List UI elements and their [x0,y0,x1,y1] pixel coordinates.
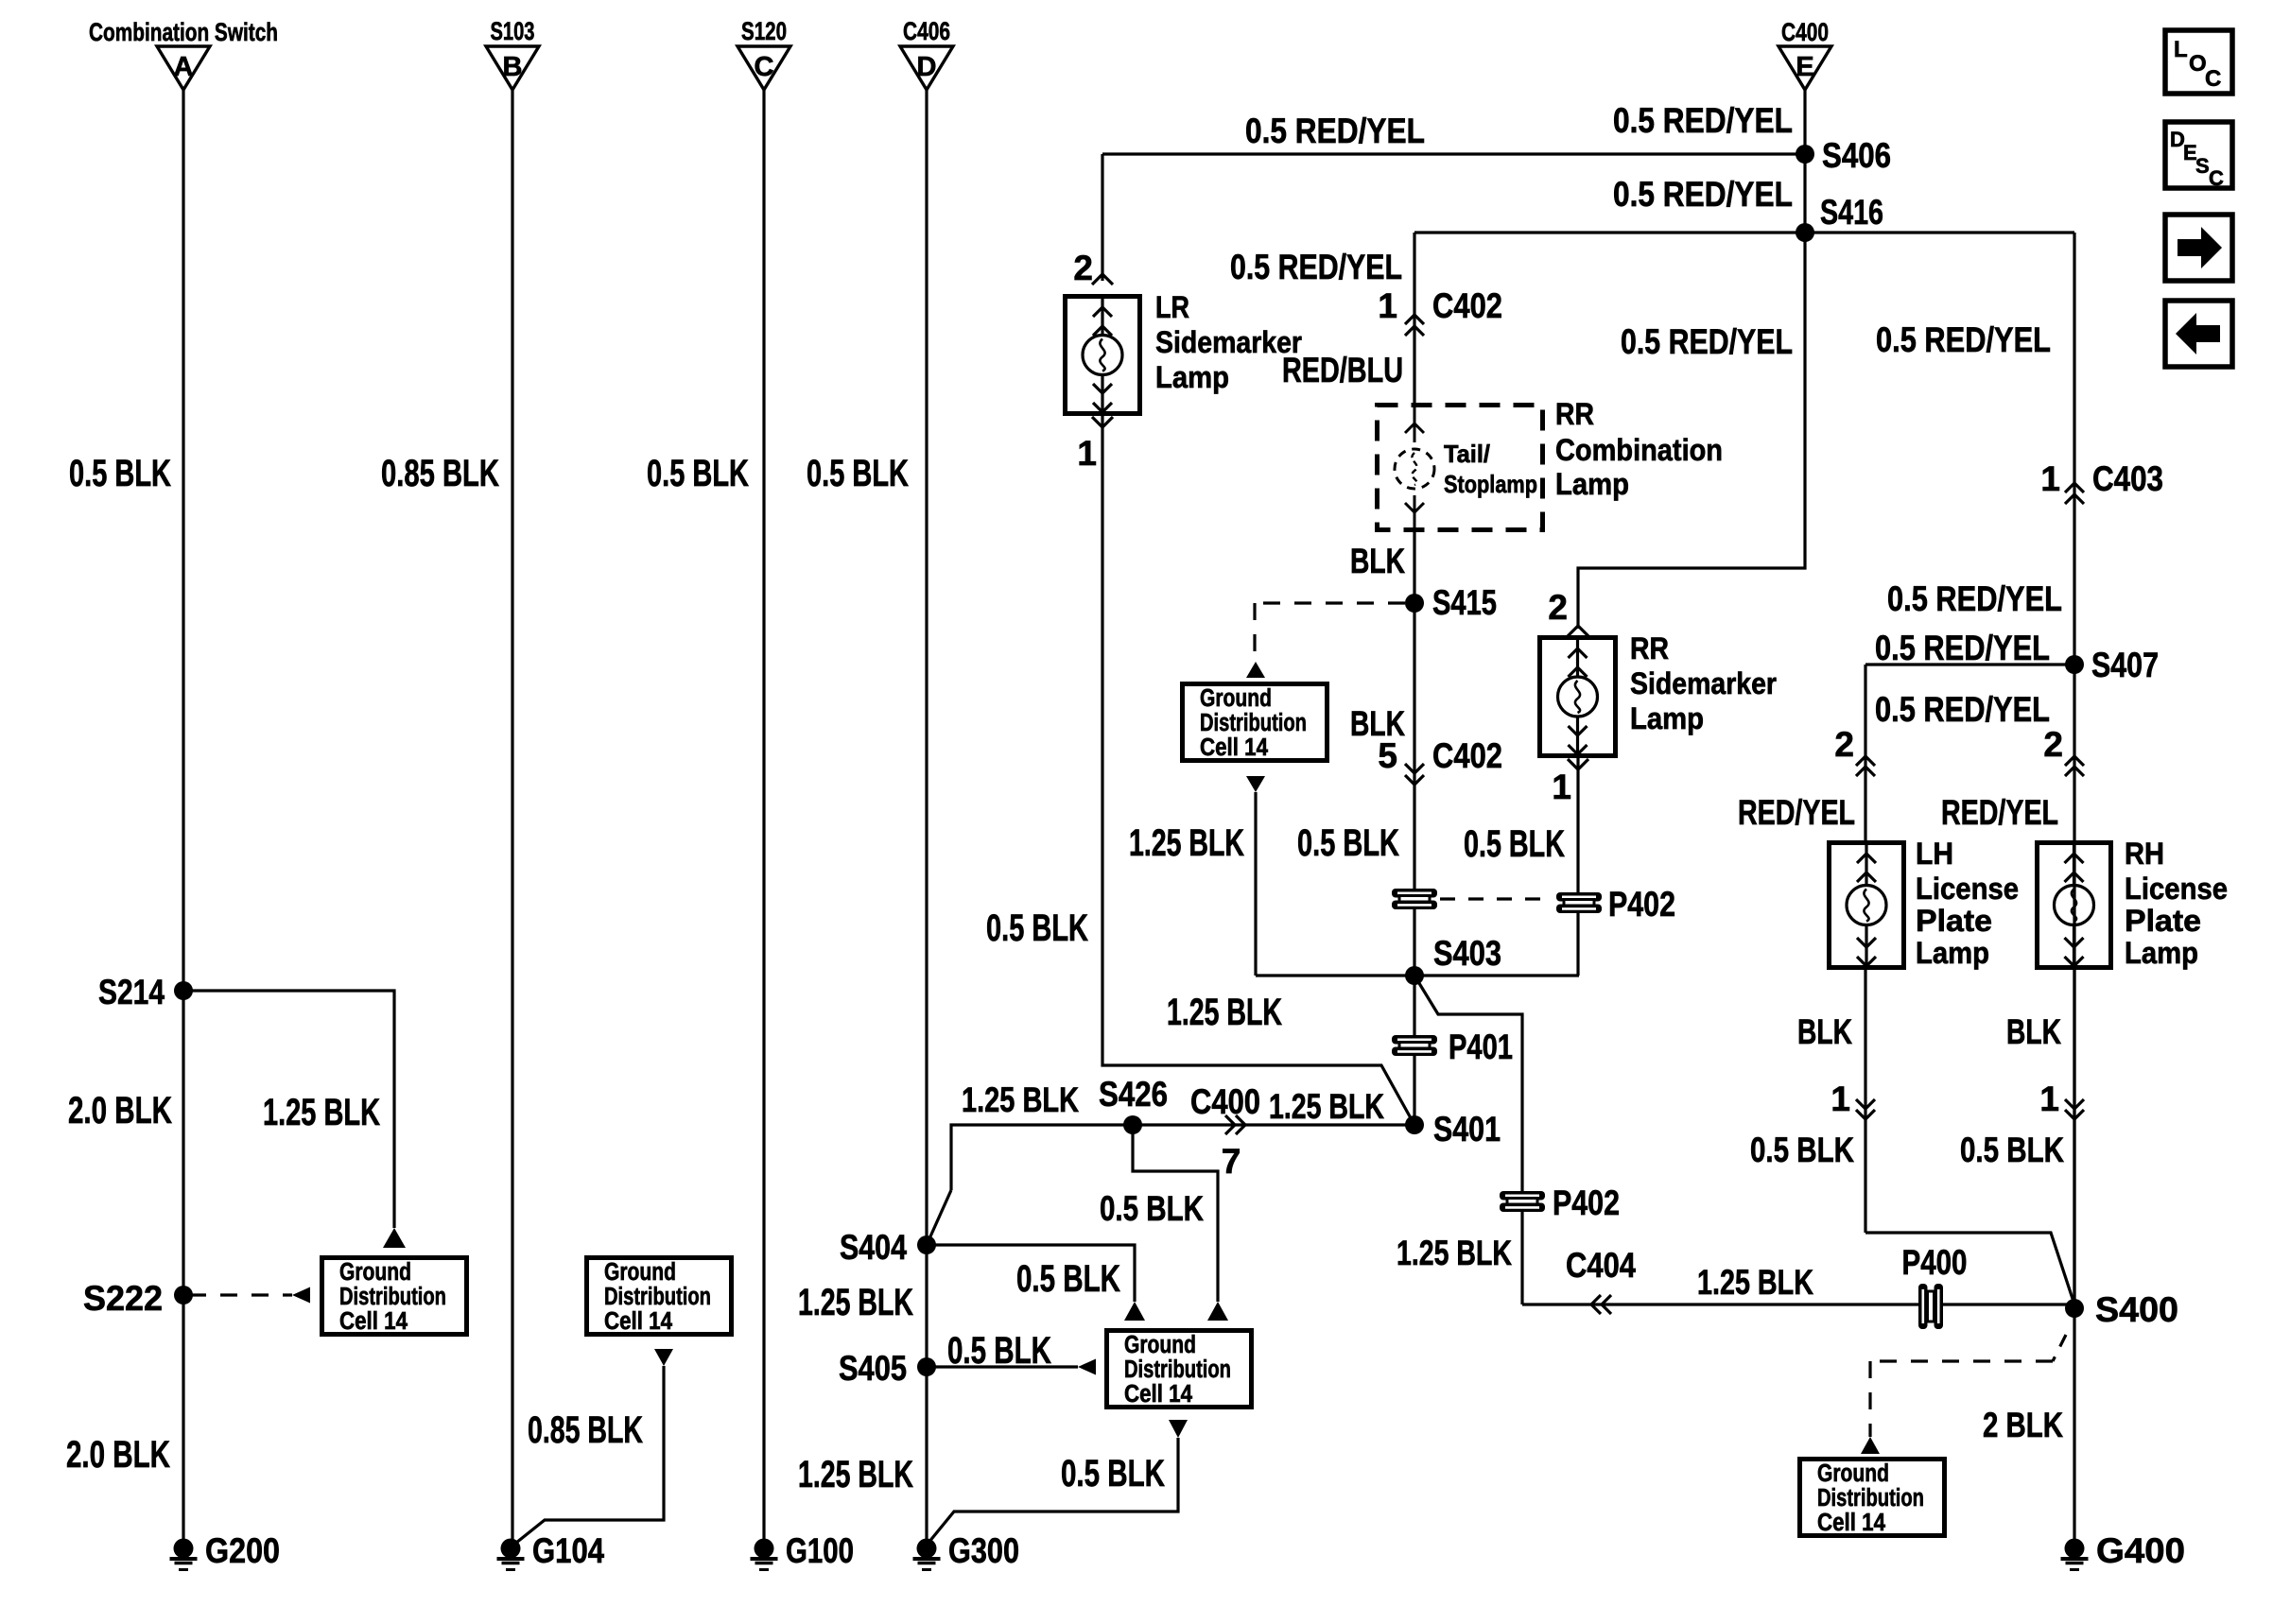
svg-text:0.5 BLK: 0.5 BLK [647,453,749,494]
svg-text:RED/BLU: RED/BLU [1282,351,1403,389]
splice P402 (right) [1556,892,1602,902]
svg-text:License: License [1916,872,2019,906]
ground G300 [917,1539,937,1559]
splice P401 [1392,1035,1437,1045]
connector C402 pin 5 [1405,764,1424,773]
svg-text:2 BLK: 2 BLK [1983,1406,2063,1444]
connector C400 pin 7 (in-line) [1225,1115,1235,1134]
connector C404 (in-line) [1591,1295,1601,1314]
wire 1.25 BLK S403 to C404 [1414,976,1522,1304]
connector triangle E (C400) [1778,46,1831,90]
svg-text:C: C [2205,66,2221,92]
svg-text:1.25 BLK: 1.25 BLK [1269,1087,1384,1126]
svg-text:G200: G200 [205,1531,280,1570]
wire S426 to ground distribution 0.5 BLK [1133,1125,1218,1302]
svg-text:RED/YEL: RED/YEL [1738,793,1855,832]
lamp RH License Plate Lamp [2038,843,2111,968]
wire BLK tail/stoplamp to S403 [1413,532,1415,976]
svg-text:Lamp: Lamp [1155,360,1229,394]
svg-text:S403: S403 [1433,934,1501,973]
arrow from ground distribution box (middle) [1169,1420,1188,1438]
wire S403 horizontal [1256,974,1579,976]
svg-text:RED/YEL: RED/YEL [1941,793,2058,832]
wire 1.25 BLK S403 to S401 [1413,976,1415,1125]
svg-text:S400: S400 [2095,1290,2178,1329]
arrow from ground distribution box (upper) [1246,776,1265,792]
svg-text:0.5 BLK: 0.5 BLK [1100,1189,1204,1228]
svg-text:2: 2 [2043,725,2063,764]
svg-text:S407: S407 [2091,646,2159,684]
legend box arrow right [2165,215,2232,281]
svg-text:Plate: Plate [2125,904,2201,938]
svg-text:S426: S426 [1099,1075,1168,1114]
svg-text:2: 2 [1834,725,1854,764]
svg-text:Cell 14: Cell 14 [1200,734,1269,761]
wire S214 to ground distribution 1.25 BLK [183,991,394,1228]
svg-text:Tail/: Tail/ [1444,440,1490,468]
ground G100 [755,1539,774,1559]
svg-text:2.0 BLK: 2.0 BLK [66,1434,170,1476]
svg-text:S405: S405 [839,1349,907,1388]
wire S405 to ground distribution 0.5 BLK [927,1365,1078,1368]
wire E vertical [1803,90,1806,154]
svg-text:BLK: BLK [1797,1012,1852,1051]
svg-text:Lamp: Lamp [1555,467,1629,501]
lamp RR Combination Lamp (Tail/Stoplamp dashed box) [1378,406,1543,530]
wire 1.25 BLK C404 to S400 [1522,1303,2074,1305]
svg-text:0.5 BLK: 0.5 BLK [807,453,909,494]
svg-text:L: L [2174,37,2188,62]
wire RED/YEL to LH license pin 2 [1864,665,1866,840]
splice P402 (left) [1392,889,1437,898]
arrow at ground distribution box (S222) [292,1287,310,1304]
wire 0.5 RED/YEL S406 to S416 [1803,154,1806,233]
svg-text:P401: P401 [1449,1028,1513,1066]
svg-text:A: A [174,52,194,82]
wire 0.5 BLK LR sidemarker ground to S401 [1102,416,1414,1125]
svg-text:G400: G400 [2096,1531,2185,1570]
svg-text:0.5 RED/YEL: 0.5 RED/YEL [1621,322,1793,361]
wire S416 horizontal [1414,231,2074,233]
wire A vertical [182,90,184,1541]
svg-text:Stoplamp: Stoplamp [1444,470,1537,498]
wire inside tail/stoplamp bottom [1414,495,1416,532]
svg-text:Distribution: Distribution [339,1284,446,1310]
svg-text:BLK: BLK [2006,1012,2061,1051]
svg-text:P402: P402 [1608,885,1675,924]
svg-text:0.5 RED/YEL: 0.5 RED/YEL [1875,629,2050,667]
svg-text:Combination: Combination [1555,433,1723,467]
arrow into ground distribution box (S400 branch) [1861,1437,1880,1454]
svg-text:Distribution: Distribution [604,1284,711,1310]
svg-text:0.5 BLK: 0.5 BLK [947,1330,1051,1372]
node S404 [917,1235,936,1254]
arrow into ground distribution box (middle) from S404 [1124,1302,1145,1321]
svg-text:B: B [503,52,523,82]
svg-text:RR: RR [1555,397,1594,431]
svg-text:Plate: Plate [1916,904,1992,938]
svg-text:S103: S103 [491,17,535,45]
legend box arrow left [2165,301,2232,367]
svg-text:C: C [755,52,774,82]
connector triangle B (S103) [486,46,539,90]
svg-text:0.5 RED/YEL: 0.5 RED/YEL [1245,112,1425,150]
svg-text:S214: S214 [98,973,165,1011]
svg-text:Sidemarker: Sidemarker [1155,325,1302,359]
arrow from ground distribution box (right) [654,1349,673,1366]
svg-text:Cell 14: Cell 14 [1817,1510,1886,1536]
svg-text:S415: S415 [1432,583,1497,622]
connector triangle D (C406) [900,46,953,90]
wire LH ground to S400 [1865,1233,2074,1304]
node S403 [1405,966,1424,985]
svg-text:1.25 BLK: 1.25 BLK [798,1454,913,1495]
svg-text:Ground: Ground [1817,1460,1889,1487]
svg-text:0.5 BLK: 0.5 BLK [1016,1258,1120,1300]
svg-text:C403: C403 [2092,459,2163,498]
node S222 [174,1286,193,1304]
svg-text:0.5 BLK: 0.5 BLK [1960,1131,2064,1169]
svg-text:1.25 BLK: 1.25 BLK [1397,1234,1512,1272]
svg-text:Ground: Ground [339,1259,411,1286]
node S407 [2065,655,2084,674]
splice P400 [1918,1284,1928,1329]
wire S404 to ground distribution 0.5 BLK [927,1245,1135,1302]
svg-text:C: C [2209,166,2224,190]
svg-text:Lamp: Lamp [2125,936,2198,970]
node S426 [1123,1115,1142,1134]
svg-text:G300: G300 [948,1531,1019,1570]
svg-text:RH: RH [2125,837,2164,871]
svg-text:1.25 BLK: 1.25 BLK [962,1080,1079,1119]
svg-text:1: 1 [1552,768,1571,806]
node S214 [174,981,193,1000]
svg-text:S222: S222 [83,1279,163,1318]
svg-text:C406: C406 [903,17,950,45]
arrow into ground distribution box (middle) from S426 [1207,1302,1228,1321]
wire 0.5 RED/YEL C403 column [2073,233,2075,1304]
svg-text:Ground: Ground [604,1259,676,1286]
svg-text:RR: RR [1630,631,1669,665]
arrow at ground distribution box (S405) [1078,1359,1096,1375]
svg-text:0.5 RED/YEL: 0.5 RED/YEL [1887,579,2062,618]
svg-text:C400: C400 [1190,1082,1260,1121]
svg-text:Distribution: Distribution [1817,1485,1924,1512]
svg-text:2: 2 [1073,249,1093,287]
svg-text:1: 1 [1077,434,1097,473]
svg-text:0.5 RED/YEL: 0.5 RED/YEL [1230,248,1402,286]
arrow into ground distribution box (upper) from S415 [1246,662,1265,678]
svg-text:O: O [2189,51,2207,77]
svg-text:Cell 14: Cell 14 [339,1308,408,1335]
ground distribution box (right, Cell 14) [587,1258,732,1335]
svg-text:BLK: BLK [1350,542,1405,580]
svg-text:5: 5 [1378,736,1397,775]
svg-text:C404: C404 [1566,1246,1636,1285]
svg-text:1.25 BLK: 1.25 BLK [798,1282,913,1323]
svg-text:Sidemarker: Sidemarker [1630,666,1777,700]
splice P402 (lower) [1500,1191,1545,1201]
node S415 [1405,594,1424,613]
svg-text:0.85 BLK: 0.85 BLK [381,453,499,494]
svg-text:1: 1 [1831,1080,1850,1118]
svg-text:0.85 BLK: 0.85 BLK [528,1409,643,1451]
svg-text:S404: S404 [840,1228,907,1267]
connector triangle C (S120) [737,46,790,90]
svg-text:0.5 BLK: 0.5 BLK [986,907,1088,949]
svg-text:G100: G100 [786,1531,854,1570]
svg-text:2: 2 [1548,588,1568,627]
svg-text:Lamp: Lamp [1630,701,1704,735]
wire 0.5 BLK RR sidemarker ground [1576,758,1579,976]
svg-text:Cell 14: Cell 14 [604,1308,673,1335]
svg-text:S406: S406 [1822,136,1891,175]
ground distribution box (upper, Cell 14) [1183,684,1327,761]
svg-text:G104: G104 [532,1531,604,1570]
wire B vertical [511,90,513,1541]
dashed wire P402 to P402 [1440,897,1553,900]
svg-text:0.5 RED/YEL: 0.5 RED/YEL [1613,101,1793,140]
wire ground distribution to G300 0.5 BLK [928,1438,1178,1543]
svg-text:C402: C402 [1432,286,1502,325]
legend box LOC [2165,30,2232,94]
svg-text:Cell 14: Cell 14 [1124,1381,1193,1408]
svg-text:0.5 RED/YEL: 0.5 RED/YEL [1875,690,2050,729]
svg-text:S416: S416 [1820,193,1883,232]
lamp LR Sidemarker Lamp [1066,297,1140,414]
svg-text:1.25 BLK: 1.25 BLK [1129,822,1244,864]
ground G400 [2065,1539,2085,1559]
node S406 [1796,145,1814,164]
connector triangle A (Combination Switch) [157,46,210,90]
node S400 [2065,1299,2084,1318]
dashed wire S222 to ground distribution [189,1293,292,1296]
dashed wire S400 to ground distribution [2053,1335,2066,1361]
svg-text:1: 1 [1378,286,1397,325]
svg-text:0.5 BLK: 0.5 BLK [1464,823,1565,865]
ground G104 [501,1539,521,1559]
ground distribution box (left, Cell 14) [322,1258,467,1335]
svg-text:0.5 BLK: 0.5 BLK [69,453,171,494]
svg-text:P402: P402 [1553,1183,1620,1222]
svg-text:D: D [917,52,937,82]
svg-text:Distribution: Distribution [1200,710,1307,736]
node S416 [1796,223,1814,242]
node S405 [917,1357,936,1376]
svg-text:S401: S401 [1433,1110,1501,1149]
wire BLK LH license ground [1864,970,1866,1233]
ground distribution box (bottom right, Cell 14) [1800,1460,1945,1536]
svg-text:License: License [2125,872,2228,906]
wire down to LR sidemarker pin 2 [1101,154,1103,281]
wire 0.5 RED/YEL S416 to RR sidemarker [1578,233,1805,629]
arrow into ground distribution box (left) [383,1228,406,1248]
svg-text:0.5 RED/YEL: 0.5 RED/YEL [1613,175,1793,214]
svg-text:C402: C402 [1432,736,1502,775]
svg-text:Combination Switch: Combination Switch [89,18,278,46]
svg-text:7: 7 [1222,1142,1241,1181]
wire 1.25 BLK ground distribution to S403 [1254,792,1257,976]
wire C vertical [762,90,765,1541]
svg-text:LH: LH [1916,837,1953,871]
node S401 [1405,1115,1424,1134]
svg-text:E: E [1796,52,1813,82]
wire 0.5 RED/YEL S406 to LR sidemarker [1102,152,1798,155]
svg-text:0.5 BLK: 0.5 BLK [1297,822,1399,864]
svg-text:LR: LR [1155,290,1189,324]
legend box DESC [2165,122,2232,188]
svg-text:Ground: Ground [1200,685,1272,712]
lamp LH License Plate Lamp [1830,843,1904,968]
ground G200 [174,1539,194,1559]
wire inside tail/stoplamp top [1414,403,1416,442]
svg-text:0.5 BLK: 0.5 BLK [1061,1453,1165,1494]
svg-text:1.25 BLK: 1.25 BLK [263,1092,380,1133]
lamp RR Sidemarker Lamp [1540,638,1616,756]
connector C403 pin 1 [2065,483,2084,492]
wire 2 BLK S400 to G400 [2073,1308,2075,1541]
svg-text:Lamp: Lamp [1916,936,1989,970]
wire 0.5 BLK RH license ground to S400 [2073,970,2075,1304]
wire 1.25 BLK to S426 and S401 [951,1125,1414,1190]
dashed wire S415 to ground distribution [1255,601,1405,604]
svg-text:S120: S120 [741,17,787,45]
svg-text:S: S [2195,154,2210,178]
wire RED/BLU C402 pin 1 to tail/stoplamp [1413,233,1415,403]
svg-text:2.0 BLK: 2.0 BLK [68,1090,172,1132]
svg-text:C400: C400 [1781,18,1829,46]
svg-text:Ground: Ground [1124,1332,1196,1358]
svg-text:Distribution: Distribution [1124,1356,1231,1383]
wire G104 to ground distribution 0.85 BLK [516,1366,664,1543]
svg-text:1.25 BLK: 1.25 BLK [1697,1263,1813,1302]
svg-text:P400: P400 [1902,1243,1968,1282]
wire D vertical [925,90,928,1541]
svg-text:1.25 BLK: 1.25 BLK [1167,992,1282,1033]
wire diagonal to S404 [927,1190,951,1245]
svg-text:0.5 RED/YEL: 0.5 RED/YEL [1876,320,2051,359]
ground distribution box (middle, Cell 14) [1107,1331,1252,1408]
svg-text:0.5 BLK: 0.5 BLK [1750,1131,1854,1169]
svg-text:1: 1 [2039,1080,2059,1118]
wire 0.5 RED/YEL S407 to LH license [1865,663,2074,665]
svg-text:1: 1 [2040,459,2060,498]
